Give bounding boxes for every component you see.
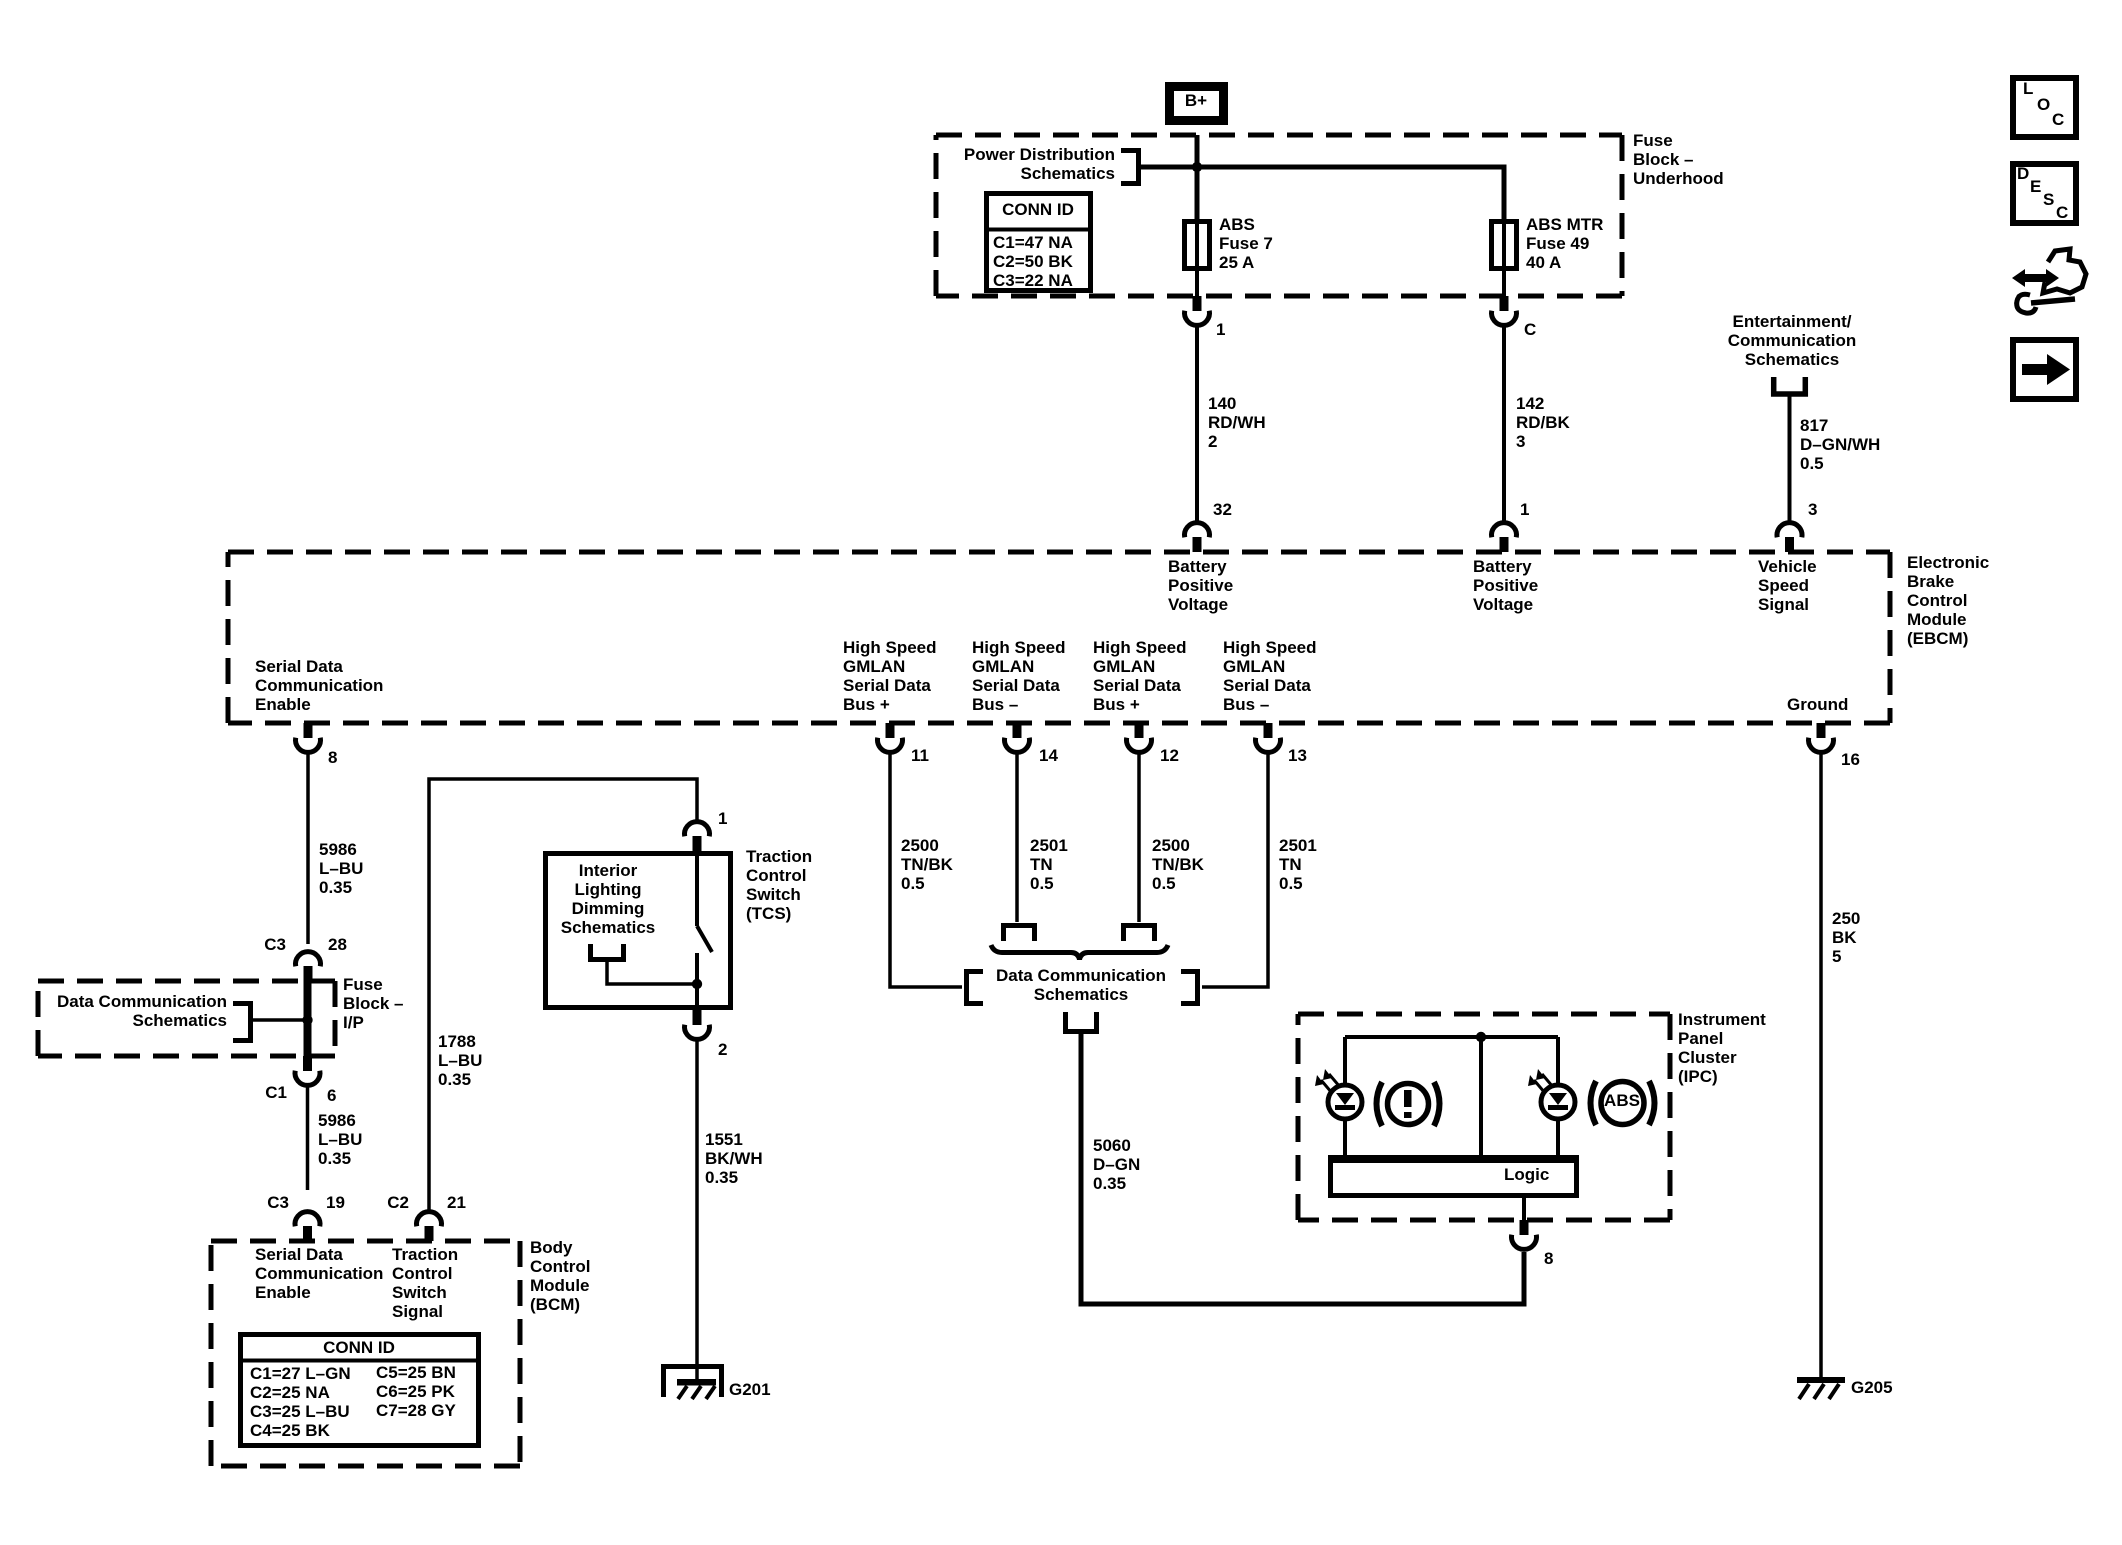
svg-text:(TCS): (TCS) bbox=[746, 904, 791, 923]
svg-text:(BCM): (BCM) bbox=[530, 1295, 580, 1314]
svg-text:Voltage: Voltage bbox=[1168, 595, 1228, 614]
label ABS MTR Fuse 49 40 A bbox=[1526, 215, 1603, 272]
svg-text:5060: 5060 bbox=[1093, 1136, 1131, 1155]
svg-text:Voltage: Voltage bbox=[1473, 595, 1533, 614]
svg-text:High Speed: High Speed bbox=[1093, 638, 1187, 657]
svg-text:C5=25 BN: C5=25 BN bbox=[376, 1363, 456, 1382]
svg-text:ABS: ABS bbox=[1604, 1091, 1640, 1110]
svg-text:High Speed: High Speed bbox=[972, 638, 1066, 657]
wire power distribution horizontal bbox=[1141, 167, 1504, 221]
svg-text:Serial Data: Serial Data bbox=[255, 1245, 343, 1264]
connector pin 8 IPC bbox=[1511, 1220, 1536, 1249]
connector pin C fuse block bbox=[1492, 296, 1517, 325]
svg-text:2: 2 bbox=[1208, 432, 1217, 451]
wire 5060 D-GN bbox=[1081, 1034, 1524, 1304]
svg-text:Switch: Switch bbox=[746, 885, 801, 904]
svg-text:C3: C3 bbox=[267, 1193, 289, 1212]
module BCM box bbox=[211, 1241, 520, 1466]
svg-text:C: C bbox=[2056, 203, 2068, 222]
label 2501 TN 0.5 pin 13 bbox=[1279, 836, 1317, 893]
node power junction bbox=[1192, 162, 1202, 172]
wire 142 RD/BK bbox=[1502, 326, 1506, 522]
svg-text:19: 19 bbox=[326, 1193, 345, 1212]
svg-text:BK/WH: BK/WH bbox=[705, 1149, 763, 1168]
logic block IPC bbox=[1328, 1155, 1579, 1196]
wire 2500 TN/BK pin 11 bbox=[890, 753, 962, 987]
svg-text:ABS MTR: ABS MTR bbox=[1526, 215, 1603, 234]
svg-text:Schematics: Schematics bbox=[1021, 164, 1116, 183]
connector pin 13 EBCM bbox=[1256, 723, 1281, 752]
svg-text:5: 5 bbox=[1832, 947, 1841, 966]
svg-text:250: 250 bbox=[1832, 909, 1860, 928]
svg-text:1: 1 bbox=[1216, 320, 1225, 339]
svg-text:Positive: Positive bbox=[1473, 576, 1538, 595]
svg-text:Speed: Speed bbox=[1758, 576, 1809, 595]
svg-text:ABS: ABS bbox=[1219, 215, 1255, 234]
label high speed gmlan bus plus pin 12 bbox=[1093, 638, 1187, 714]
svg-text:Cluster: Cluster bbox=[1678, 1048, 1737, 1067]
label 142 RD/BK 3 bbox=[1516, 394, 1571, 451]
svg-text:TN/BK: TN/BK bbox=[1152, 855, 1205, 874]
svg-text:3: 3 bbox=[1516, 432, 1525, 451]
svg-text:Schematics: Schematics bbox=[1034, 985, 1129, 1004]
wire 250 BK bbox=[1819, 753, 1823, 1381]
node TCS contact junction bbox=[692, 979, 702, 989]
svg-text:0.35: 0.35 bbox=[318, 1149, 351, 1168]
svg-text:142: 142 bbox=[1516, 394, 1544, 413]
interior lighting dimming schematics reference bbox=[561, 861, 656, 960]
label ABS Fuse 7 25 A bbox=[1219, 215, 1273, 272]
fuse block IP / data communication schematics dashed box bbox=[38, 981, 335, 1056]
svg-text:5986: 5986 bbox=[318, 1111, 356, 1130]
svg-text:Bus +: Bus + bbox=[1093, 695, 1140, 714]
svg-text:C1=27 L–GN: C1=27 L–GN bbox=[250, 1364, 351, 1383]
label 1788 L-BU 0.35 bbox=[438, 1032, 482, 1089]
svg-text:D: D bbox=[2017, 164, 2029, 183]
svg-text:RD/BK: RD/BK bbox=[1516, 413, 1571, 432]
label high speed gmlan bus minus pin 14 bbox=[972, 638, 1066, 714]
svg-text:Power Distribution: Power Distribution bbox=[964, 145, 1115, 164]
wire logic to IPC pin 8 bbox=[1522, 1196, 1526, 1220]
svg-text:Brake: Brake bbox=[1907, 572, 1954, 591]
svg-text:GMLAN: GMLAN bbox=[1223, 657, 1285, 676]
label traction control switch signal BCM bbox=[392, 1245, 458, 1321]
brace data communication group bbox=[991, 945, 1168, 960]
module EBCM box bbox=[228, 552, 1890, 723]
label Instrument Panel Cluster IPC bbox=[1678, 1010, 1766, 1086]
label high speed gmlan bus minus pin 13 bbox=[1223, 638, 1317, 714]
svg-text:Battery: Battery bbox=[1473, 557, 1532, 576]
node IPC junction bbox=[1476, 1032, 1486, 1042]
label Fuse Block Underhood bbox=[1633, 131, 1724, 188]
svg-text:2501: 2501 bbox=[1279, 836, 1317, 855]
svg-text:Fuse 49: Fuse 49 bbox=[1526, 234, 1589, 253]
svg-text:13: 13 bbox=[1288, 746, 1307, 765]
svg-text:1551: 1551 bbox=[705, 1130, 743, 1149]
svg-text:Bus –: Bus – bbox=[1223, 695, 1269, 714]
svg-text:Bus –: Bus – bbox=[972, 695, 1018, 714]
svg-text:C7=28 GY: C7=28 GY bbox=[376, 1401, 457, 1420]
svg-text:C6=25 PK: C6=25 PK bbox=[376, 1382, 456, 1401]
svg-text:High Speed: High Speed bbox=[843, 638, 937, 657]
icon arrow bbox=[2013, 340, 2076, 399]
svg-text:1: 1 bbox=[718, 809, 727, 828]
svg-text:Serial Data: Serial Data bbox=[843, 676, 931, 695]
wire 2501 TN pin 13 bbox=[1202, 753, 1268, 987]
wire 5986 L-BU lower bbox=[306, 1086, 310, 1190]
svg-text:140: 140 bbox=[1208, 394, 1236, 413]
svg-text:0.5: 0.5 bbox=[1279, 874, 1303, 893]
svg-text:C3=25 L–BU: C3=25 L–BU bbox=[250, 1402, 350, 1421]
connector C2 pin 21 BCM bbox=[417, 1212, 442, 1241]
label Traction Control Switch TCS bbox=[746, 847, 812, 923]
connector pin 11 EBCM bbox=[878, 723, 903, 752]
power distribution schematics reference bbox=[964, 145, 1139, 184]
connector pin 14 EBCM bbox=[1005, 723, 1030, 752]
svg-text:Module: Module bbox=[530, 1276, 590, 1295]
connector pin 32 EBCM bbox=[1185, 523, 1210, 552]
svg-text:0.35: 0.35 bbox=[705, 1168, 738, 1187]
label 5060 D-GN 0.35 bbox=[1093, 1136, 1140, 1193]
svg-text:GMLAN: GMLAN bbox=[843, 657, 905, 676]
svg-text:Schematics: Schematics bbox=[133, 1011, 228, 1030]
label Electronic Brake Control Module EBCM bbox=[1907, 553, 1989, 648]
svg-text:C: C bbox=[1524, 320, 1536, 339]
svg-text:0.5: 0.5 bbox=[1800, 454, 1824, 473]
svg-text:28: 28 bbox=[328, 935, 347, 954]
label 817 D-GN/WH 0.5 bbox=[1800, 416, 1880, 473]
svg-text:Battery: Battery bbox=[1168, 557, 1227, 576]
label vehicle speed signal bbox=[1758, 557, 1817, 614]
connector pin 8 EBCM bbox=[296, 723, 321, 752]
label high speed gmlan bus plus pin 11 bbox=[843, 638, 937, 714]
label serial data communication enable bbox=[255, 657, 383, 714]
svg-text:1788: 1788 bbox=[438, 1032, 476, 1051]
svg-text:Serial Data: Serial Data bbox=[1093, 676, 1181, 695]
svg-text:Panel: Panel bbox=[1678, 1029, 1723, 1048]
svg-text:Control: Control bbox=[1907, 591, 1967, 610]
svg-text:S: S bbox=[2043, 190, 2054, 209]
label 2501 TN 0.5 pin 14 bbox=[1030, 836, 1068, 893]
svg-text:Instrument: Instrument bbox=[1678, 1010, 1766, 1029]
icon LOC bbox=[2013, 78, 2076, 137]
connector pin 1 TCS bbox=[685, 822, 710, 851]
svg-text:Underhood: Underhood bbox=[1633, 169, 1724, 188]
svg-text:Switch: Switch bbox=[392, 1283, 447, 1302]
svg-text:Traction: Traction bbox=[746, 847, 812, 866]
icon DESC bbox=[2013, 164, 2076, 223]
svg-text:G201: G201 bbox=[729, 1380, 771, 1399]
label 5986 L-BU 0.35 lower bbox=[318, 1111, 362, 1168]
data communication schematics reference text bbox=[57, 992, 227, 1030]
svg-text:16: 16 bbox=[1841, 750, 1860, 769]
svg-text:Electronic: Electronic bbox=[1907, 553, 1989, 572]
svg-text:O: O bbox=[2037, 95, 2050, 114]
svg-text:Bus +: Bus + bbox=[843, 695, 890, 714]
module IPC box bbox=[1298, 1014, 1670, 1220]
reference bracket right bbox=[1181, 972, 1198, 1004]
svg-text:(IPC): (IPC) bbox=[1678, 1067, 1718, 1086]
label battery positive voltage pin 32 bbox=[1168, 557, 1233, 614]
svg-text:6: 6 bbox=[327, 1086, 336, 1105]
label 250 BK 5 bbox=[1832, 909, 1860, 966]
fuse block underhood box bbox=[936, 135, 1622, 296]
svg-text:C3=22 NA: C3=22 NA bbox=[993, 271, 1073, 290]
svg-text:B+: B+ bbox=[1185, 91, 1207, 110]
svg-text:Serial Data: Serial Data bbox=[972, 676, 1060, 695]
label battery positive voltage pin 1 bbox=[1473, 557, 1538, 614]
indicator ABS symbol bbox=[1591, 1081, 1655, 1125]
svg-text:Block –: Block – bbox=[1633, 150, 1693, 169]
svg-text:C3: C3 bbox=[264, 935, 286, 954]
svg-text:High Speed: High Speed bbox=[1223, 638, 1317, 657]
reference bracket bottom bbox=[1066, 1012, 1097, 1032]
svg-text:0.35: 0.35 bbox=[319, 878, 352, 897]
svg-text:Data Communication: Data Communication bbox=[996, 966, 1166, 985]
connector pin 2 TCS bbox=[685, 1010, 710, 1039]
svg-text:0.5: 0.5 bbox=[1030, 874, 1054, 893]
reference bracket left bbox=[967, 972, 984, 1004]
wire 140 RD/WH bbox=[1195, 326, 1199, 522]
svg-text:Control: Control bbox=[392, 1264, 452, 1283]
switch blade TCS upper wire bbox=[695, 851, 699, 926]
svg-text:Interior: Interior bbox=[579, 861, 638, 880]
svg-text:TN/BK: TN/BK bbox=[901, 855, 954, 874]
connector face wire 14 bbox=[1004, 926, 1035, 942]
svg-text:Positive: Positive bbox=[1168, 576, 1233, 595]
connector C3 pin 28 fuse block IP bbox=[296, 952, 321, 981]
svg-text:3: 3 bbox=[1808, 500, 1817, 519]
LED ABS indicator bbox=[1528, 1037, 1575, 1159]
label 2500 TN/BK 0.5 pin 11 bbox=[901, 836, 954, 893]
svg-text:RD/WH: RD/WH bbox=[1208, 413, 1266, 432]
svg-text:Ground: Ground bbox=[1787, 695, 1848, 714]
data communication schematics reference bracket bbox=[233, 1004, 251, 1041]
svg-text:25 A: 25 A bbox=[1219, 253, 1254, 272]
svg-text:Module: Module bbox=[1907, 610, 1967, 629]
node fuse block IP junction bbox=[302, 1015, 312, 1025]
svg-text:Traction: Traction bbox=[392, 1245, 458, 1264]
svg-text:C2: C2 bbox=[387, 1193, 409, 1212]
svg-text:8: 8 bbox=[328, 748, 337, 767]
wire 5986 L-BU upper bbox=[306, 753, 310, 944]
svg-text:Control: Control bbox=[530, 1257, 590, 1276]
svg-text:2501: 2501 bbox=[1030, 836, 1068, 855]
label Body Control Module BCM bbox=[530, 1238, 590, 1314]
data communication schematics reference middle bbox=[996, 966, 1166, 1004]
connector C1 pin 6 fuse block IP bbox=[295, 1056, 320, 1085]
svg-text:817: 817 bbox=[1800, 416, 1828, 435]
svg-text:14: 14 bbox=[1039, 746, 1058, 765]
wire 1551 BK/WH bbox=[695, 1040, 699, 1381]
svg-text:5986: 5986 bbox=[319, 840, 357, 859]
svg-text:2500: 2500 bbox=[901, 836, 939, 855]
svg-text:(EBCM): (EBCM) bbox=[1907, 629, 1968, 648]
svg-text:CONN ID: CONN ID bbox=[323, 1338, 395, 1357]
svg-text:Communication: Communication bbox=[255, 1264, 383, 1283]
svg-text:Lighting: Lighting bbox=[574, 880, 641, 899]
svg-text:Enable: Enable bbox=[255, 1283, 311, 1302]
svg-text:L–BU: L–BU bbox=[438, 1051, 482, 1070]
svg-text:0.5: 0.5 bbox=[1152, 874, 1176, 893]
wire dimming reference to switch contact bbox=[607, 962, 694, 984]
svg-text:Fuse: Fuse bbox=[1633, 131, 1673, 150]
fuse F7 ABS 25A bbox=[1185, 221, 1210, 296]
label 2500 TN/BK 0.5 pin 12 bbox=[1152, 836, 1205, 893]
svg-text:C1=47 NA: C1=47 NA bbox=[993, 233, 1073, 252]
svg-text:2: 2 bbox=[718, 1040, 727, 1059]
wire 2500 TN/BK pin 12 bbox=[1137, 753, 1141, 922]
bus fuse block IP internal bbox=[304, 966, 312, 1068]
LED brake warning indicator bbox=[1315, 1037, 1362, 1159]
svg-text:TN: TN bbox=[1279, 855, 1302, 874]
connector ID table fuse block bbox=[986, 194, 1091, 291]
svg-text:G205: G205 bbox=[1851, 1378, 1893, 1397]
wire 2501 TN pin 14 bbox=[1015, 753, 1019, 922]
svg-text:Dimming: Dimming bbox=[572, 899, 645, 918]
svg-text:Signal: Signal bbox=[1758, 595, 1809, 614]
wire 817 D-GN/WH bbox=[1788, 396, 1792, 522]
svg-text:L–BU: L–BU bbox=[318, 1130, 362, 1149]
svg-text:Schematics: Schematics bbox=[561, 918, 656, 937]
svg-text:Block –: Block – bbox=[343, 994, 403, 1013]
wire B+ feed vertical bbox=[1195, 135, 1200, 221]
svg-text:Signal: Signal bbox=[392, 1302, 443, 1321]
battery feed B+ bbox=[1170, 87, 1224, 121]
svg-text:L–BU: L–BU bbox=[319, 859, 363, 878]
connector C3 pin 19 BCM bbox=[295, 1212, 320, 1241]
svg-text:BK: BK bbox=[1832, 928, 1857, 947]
ground G205 bbox=[1797, 1377, 1845, 1399]
svg-text:Data Communication: Data Communication bbox=[57, 992, 227, 1011]
svg-text:12: 12 bbox=[1160, 746, 1179, 765]
svg-text:Entertainment/: Entertainment/ bbox=[1732, 312, 1851, 331]
connector pin 12 EBCM bbox=[1127, 723, 1152, 752]
connector pin 3 EBCM bbox=[1777, 523, 1802, 552]
wire IPC internal top bbox=[1345, 1035, 1558, 1039]
connector ID table BCM bbox=[240, 1335, 479, 1446]
wire bracket to fuse block IP bus bbox=[252, 1018, 304, 1022]
switch lower contact wire TCS bbox=[695, 953, 699, 1010]
svg-text:Vehicle: Vehicle bbox=[1758, 557, 1817, 576]
connector pin 1 fuse block bbox=[1185, 296, 1210, 325]
svg-text:CONN ID: CONN ID bbox=[1002, 200, 1074, 219]
svg-text:I/P: I/P bbox=[343, 1013, 364, 1032]
svg-text:Communication: Communication bbox=[1728, 331, 1856, 350]
svg-text:11: 11 bbox=[911, 746, 929, 765]
svg-text:D–GN/WH: D–GN/WH bbox=[1800, 435, 1880, 454]
svg-text:Communication: Communication bbox=[255, 676, 383, 695]
icon service tools bbox=[2012, 249, 2086, 313]
label Fuse Block I/P bbox=[343, 975, 403, 1032]
svg-text:C2=50 BK: C2=50 BK bbox=[993, 252, 1074, 271]
svg-text:Serial Data: Serial Data bbox=[1223, 676, 1311, 695]
connector pin 16 EBCM bbox=[1809, 723, 1834, 752]
svg-text:0.5: 0.5 bbox=[901, 874, 925, 893]
switch blade TCS bbox=[697, 926, 712, 952]
switch TCS box bbox=[546, 854, 731, 1008]
svg-text:2500: 2500 bbox=[1152, 836, 1190, 855]
svg-text:Fuse: Fuse bbox=[343, 975, 383, 994]
wire IPC junction to logic bbox=[1479, 1037, 1483, 1159]
label 5986 L-BU 0.35 upper bbox=[319, 840, 363, 897]
svg-text:C: C bbox=[2052, 110, 2064, 129]
svg-text:E: E bbox=[2030, 177, 2041, 196]
svg-text:Control: Control bbox=[746, 866, 806, 885]
svg-text:0.35: 0.35 bbox=[1093, 1174, 1126, 1193]
svg-text:C1: C1 bbox=[265, 1083, 287, 1102]
svg-text:C4=25 BK: C4=25 BK bbox=[250, 1421, 331, 1440]
svg-text:Enable: Enable bbox=[255, 695, 311, 714]
svg-text:40 A: 40 A bbox=[1526, 253, 1561, 272]
svg-text:1: 1 bbox=[1520, 500, 1529, 519]
svg-text:Schematics: Schematics bbox=[1745, 350, 1840, 369]
connector face wire 12 bbox=[1124, 926, 1155, 942]
svg-text:GMLAN: GMLAN bbox=[972, 657, 1034, 676]
svg-text:32: 32 bbox=[1213, 500, 1232, 519]
label serial data communication enable BCM bbox=[255, 1245, 383, 1302]
svg-text:L: L bbox=[2023, 79, 2033, 98]
wire 1788 L-BU bbox=[429, 779, 697, 1211]
svg-text:Fuse 7: Fuse 7 bbox=[1219, 234, 1273, 253]
ground G201 bbox=[664, 1367, 722, 1400]
svg-text:0.35: 0.35 bbox=[438, 1070, 471, 1089]
svg-text:Serial Data: Serial Data bbox=[255, 657, 343, 676]
entertainment communication schematics reference bbox=[1728, 312, 1856, 394]
svg-text:C2=25 NA: C2=25 NA bbox=[250, 1383, 330, 1402]
label 140 RD/WH 2 bbox=[1208, 394, 1266, 451]
svg-text:TN: TN bbox=[1030, 855, 1053, 874]
connector pin 1 EBCM bbox=[1492, 523, 1517, 552]
svg-text:GMLAN: GMLAN bbox=[1093, 657, 1155, 676]
svg-text:D–GN: D–GN bbox=[1093, 1155, 1140, 1174]
svg-text:8: 8 bbox=[1544, 1249, 1553, 1268]
svg-text:Logic: Logic bbox=[1504, 1165, 1549, 1184]
svg-text:21: 21 bbox=[447, 1193, 466, 1212]
label 1551 BK/WH 0.35 bbox=[705, 1130, 763, 1187]
fuse F49 ABS MTR 40A bbox=[1492, 221, 1517, 296]
svg-text:Body: Body bbox=[530, 1238, 573, 1257]
indicator brake warning symbol bbox=[1377, 1082, 1440, 1126]
